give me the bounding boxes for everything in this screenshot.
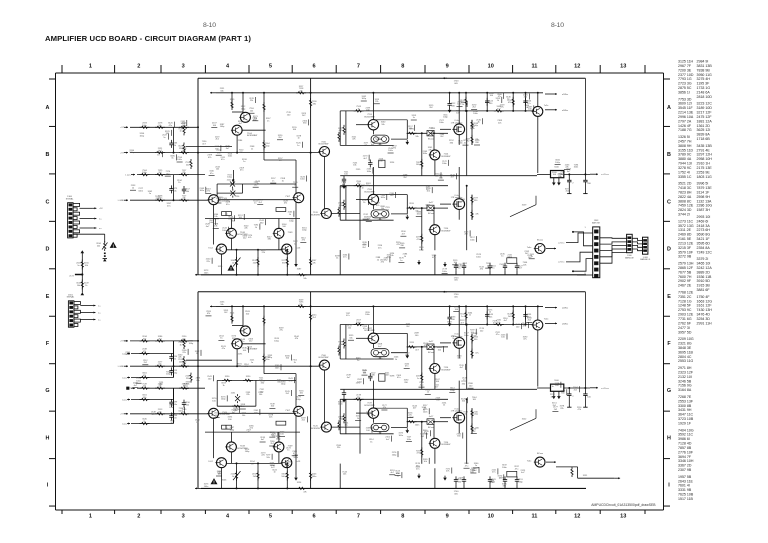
- svg-text:5100: 5100: [554, 380, 559, 382]
- svg-text:47k: 47k: [524, 97, 528, 99]
- svg-text:22k: 22k: [250, 428, 254, 430]
- svg-text:4n7: 4n7: [435, 387, 439, 389]
- svg-text:47u: 47u: [254, 118, 258, 120]
- svg-text:n.c.: n.c.: [98, 312, 102, 314]
- svg-text:100p: 100p: [289, 221, 294, 223]
- svg-text:7x2x: 7x2x: [544, 319, 550, 321]
- svg-text:2797 2A: 2797 2A: [678, 119, 692, 123]
- svg-text:22k: 22k: [560, 408, 564, 410]
- svg-text:2984 9I: 2984 9I: [697, 60, 709, 64]
- svg-text:330: 330: [561, 393, 565, 395]
- svg-text:1k: 1k: [443, 405, 446, 407]
- svg-text:1k: 1k: [357, 108, 360, 110]
- svg-text:47u: 47u: [344, 425, 348, 427]
- svg-text:BC858W: BC858W: [442, 369, 452, 371]
- svg-text:1n: 1n: [77, 265, 80, 267]
- svg-text:100: 100: [415, 335, 419, 337]
- svg-text:100p: 100p: [281, 384, 286, 386]
- svg-text:6: 6: [312, 513, 315, 519]
- svg-text:47k: 47k: [480, 269, 484, 271]
- svg-text:47k: 47k: [303, 491, 307, 493]
- svg-text:2k2: 2k2: [97, 246, 101, 248]
- svg-text:1k: 1k: [294, 362, 297, 364]
- svg-text:22k: 22k: [357, 397, 361, 399]
- svg-text:1k: 1k: [196, 353, 199, 355]
- svg-text:1k: 1k: [232, 476, 235, 478]
- svg-text:6: 6: [312, 63, 315, 69]
- svg-text:3246 5B: 3246 5B: [678, 379, 692, 383]
- svg-text:7768 12E: 7768 12E: [678, 291, 694, 295]
- svg-text:22k: 22k: [375, 101, 379, 103]
- svg-text:7268 7E: 7268 7E: [678, 395, 692, 399]
- svg-text:47u: 47u: [226, 204, 230, 206]
- svg-text:47u: 47u: [279, 330, 283, 332]
- svg-text:3154: 3154: [390, 162, 395, 164]
- svg-text:2k2: 2k2: [574, 389, 578, 391]
- svg-text:3367 2D: 3367 2D: [678, 464, 692, 468]
- svg-text:10k: 10k: [266, 457, 270, 459]
- svg-text:22k: 22k: [182, 172, 186, 174]
- svg-text:G: G: [45, 388, 49, 394]
- svg-text:2273 6H: 2273 6H: [697, 228, 711, 232]
- svg-text:100: 100: [282, 226, 286, 228]
- svg-text:1426 4F: 1426 4F: [678, 124, 692, 128]
- svg-text:3164 8A: 3164 8A: [678, 388, 692, 392]
- svg-text:7418 3C: 7418 3C: [678, 186, 692, 190]
- svg-text:3957 5D: 3957 5D: [678, 330, 692, 334]
- svg-text:L GND: L GND: [118, 366, 125, 368]
- svg-text:7156 9G: 7156 9G: [678, 384, 692, 388]
- svg-text:47u: 47u: [240, 170, 244, 172]
- svg-text:47u: 47u: [475, 353, 479, 355]
- svg-text:3881 6F: 3881 6F: [697, 288, 711, 292]
- svg-text:3465 10I: 3465 10I: [697, 262, 711, 266]
- svg-text:7x13: 7x13: [295, 248, 301, 250]
- svg-text:7857 8B: 7857 8B: [678, 446, 692, 450]
- svg-text:3880 4A: 3880 4A: [678, 157, 692, 161]
- svg-text:47k: 47k: [248, 237, 252, 239]
- svg-text:11: 11: [531, 513, 537, 519]
- svg-text:2k2: 2k2: [403, 177, 407, 179]
- svg-text:100p: 100p: [473, 414, 478, 416]
- svg-text:1: 1: [584, 227, 586, 229]
- svg-text:2199: 2199: [458, 477, 463, 479]
- svg-text:7879 13E: 7879 13E: [697, 186, 713, 190]
- svg-text:2k2: 2k2: [249, 341, 253, 343]
- svg-text:1n: 1n: [267, 120, 270, 122]
- svg-text:2k2: 2k2: [429, 107, 433, 109]
- svg-text:100: 100: [490, 95, 494, 97]
- svg-text:47k: 47k: [381, 262, 385, 264]
- svg-text:1n: 1n: [461, 316, 464, 318]
- svg-text:1k: 1k: [220, 338, 223, 340]
- svg-text:1n: 1n: [243, 161, 246, 163]
- svg-text:4n7: 4n7: [413, 408, 417, 410]
- svg-text:10: 10: [488, 513, 494, 519]
- svg-text:2: 2: [137, 63, 140, 69]
- svg-text:7128 1G: 7128 1G: [678, 299, 692, 303]
- svg-text:3159: 3159: [299, 300, 304, 302]
- svg-text:2148 6A: 2148 6A: [697, 90, 711, 94]
- svg-text:7944 13I: 7944 13I: [678, 162, 692, 166]
- svg-text:47u: 47u: [222, 348, 226, 350]
- svg-text:3169: 3169: [230, 99, 235, 101]
- svg-text:100n: 100n: [199, 190, 204, 192]
- svg-text:1536 11B: 1536 11B: [697, 275, 713, 279]
- svg-text:12: 12: [574, 63, 580, 69]
- svg-text:47k: 47k: [207, 313, 211, 315]
- svg-text:3572 13G: 3572 13G: [678, 224, 694, 228]
- svg-text:2k2: 2k2: [466, 141, 470, 143]
- svg-text:7677 5B: 7677 5B: [678, 270, 692, 274]
- svg-text:10k: 10k: [454, 262, 458, 264]
- svg-text:47u: 47u: [167, 205, 171, 207]
- svg-text:3331 9B: 3331 9B: [678, 488, 692, 492]
- svg-text:4n7: 4n7: [390, 472, 394, 474]
- svg-text:1k: 1k: [222, 385, 225, 387]
- svg-text:100: 100: [390, 195, 394, 197]
- svg-text:3579 10F: 3579 10F: [678, 250, 694, 254]
- svg-text:10k: 10k: [173, 190, 177, 192]
- svg-text:3950 11G: 3950 11G: [697, 73, 713, 77]
- svg-text:2967 7F: 2967 7F: [678, 64, 692, 68]
- svg-text:3297 12H: 3297 12H: [697, 153, 713, 157]
- svg-text:1k: 1k: [336, 258, 339, 260]
- svg-text:47k: 47k: [578, 409, 582, 411]
- svg-text:3154: 3154: [297, 482, 302, 484]
- svg-text:100p: 100p: [166, 374, 171, 376]
- svg-text:o2Wxx: o2Wxx: [562, 94, 568, 96]
- svg-text:3125 11H: 3125 11H: [678, 60, 694, 64]
- svg-text:330: 330: [312, 103, 316, 105]
- svg-text:100n: 100n: [204, 486, 209, 488]
- svg-text:1k: 1k: [196, 422, 199, 424]
- svg-text:8: 8: [401, 513, 404, 519]
- svg-text:3808 8C: 3808 8C: [678, 199, 692, 203]
- svg-text:1k: 1k: [178, 182, 181, 184]
- svg-text:7249 12C: 7249 12C: [697, 250, 713, 254]
- svg-text:3355 1C: 3355 1C: [678, 175, 692, 179]
- svg-text:100n: 100n: [476, 256, 481, 258]
- svg-text:1663 12G: 1663 12G: [697, 299, 713, 303]
- svg-text:2k2: 2k2: [362, 247, 366, 249]
- svg-text:3986 6I: 3986 6I: [678, 437, 690, 441]
- svg-text:47k: 47k: [207, 191, 211, 193]
- svg-text:2253 9E: 2253 9E: [697, 170, 711, 174]
- svg-text:2191: 2191: [238, 354, 243, 356]
- svg-text:47u: 47u: [500, 107, 504, 109]
- svg-text:1k: 1k: [497, 100, 500, 102]
- svg-text:3996 5I: 3996 5I: [697, 182, 709, 186]
- svg-text:4x17: 4x17: [429, 416, 434, 418]
- svg-text:1n: 1n: [492, 268, 495, 270]
- svg-text:330: 330: [474, 200, 478, 202]
- svg-text:100p: 100p: [518, 481, 523, 483]
- svg-text:1k: 1k: [232, 262, 235, 264]
- svg-text:C: C: [667, 199, 671, 205]
- svg-text:12: 12: [574, 513, 580, 519]
- svg-text:100p: 100p: [392, 454, 397, 456]
- svg-text:BC858W: BC858W: [442, 231, 452, 233]
- svg-text:1n: 1n: [298, 138, 301, 140]
- svg-text:7753 3D: 7753 3D: [678, 97, 692, 101]
- svg-text:7107: 7107: [285, 410, 291, 412]
- svg-text:7109: 7109: [287, 232, 293, 234]
- svg-text:4n7: 4n7: [226, 148, 230, 150]
- svg-text:100n: 100n: [357, 381, 362, 383]
- svg-text:3189 10D: 3189 10D: [697, 106, 713, 110]
- svg-text:3647 11C: 3647 11C: [678, 413, 694, 417]
- svg-text:100n: 100n: [312, 476, 317, 478]
- svg-text:4n7: 4n7: [460, 367, 464, 369]
- svg-text:100n: 100n: [473, 113, 478, 115]
- svg-text:2553 13F: 2553 13F: [678, 399, 694, 403]
- svg-text:4n7: 4n7: [464, 142, 468, 144]
- svg-text:2k2: 2k2: [472, 431, 476, 433]
- svg-text:H: H: [667, 435, 671, 441]
- svg-text:10k: 10k: [216, 169, 220, 171]
- svg-text:1k: 1k: [294, 184, 297, 186]
- svg-text:7459 12E: 7459 12E: [678, 204, 694, 208]
- svg-text:7x12: 7x12: [208, 248, 214, 250]
- svg-text:3: 3: [182, 63, 185, 69]
- svg-text:3379 2I: 3379 2I: [697, 257, 709, 261]
- svg-text:2k2: 2k2: [406, 326, 410, 328]
- svg-text:10k: 10k: [186, 191, 190, 193]
- svg-text:3215 3F: 3215 3F: [678, 246, 692, 250]
- svg-text:A: A: [46, 105, 50, 111]
- svg-text:100: 100: [457, 358, 461, 360]
- svg-text:1n: 1n: [362, 187, 365, 189]
- svg-text:1k: 1k: [458, 268, 461, 270]
- svg-text:2323 12F: 2323 12F: [678, 370, 694, 374]
- svg-text:2321 8G: 2321 8G: [678, 342, 692, 346]
- svg-text:100n: 100n: [423, 153, 428, 155]
- svg-text:47u: 47u: [515, 468, 519, 470]
- svg-text:10k: 10k: [303, 278, 307, 280]
- svg-text:2k2: 2k2: [216, 139, 220, 141]
- svg-text:2k2: 2k2: [528, 320, 532, 322]
- svg-text:2k2: 2k2: [473, 470, 477, 472]
- svg-text:3195: 3195: [409, 203, 414, 205]
- svg-text:330: 330: [450, 142, 454, 144]
- svg-text:7823 8H: 7823 8H: [678, 191, 692, 195]
- svg-text:1n: 1n: [413, 117, 416, 119]
- svg-text:7404 10G: 7404 10G: [678, 428, 694, 432]
- svg-text:100p: 100p: [227, 177, 232, 179]
- svg-text:1195 3F: 1195 3F: [697, 82, 711, 86]
- svg-text:3545 11F: 3545 11F: [678, 106, 694, 110]
- svg-text:330: 330: [261, 383, 265, 385]
- svg-text:3155 11D: 3155 11D: [678, 148, 694, 152]
- svg-text:330: 330: [489, 103, 493, 105]
- svg-text:10k: 10k: [214, 226, 218, 228]
- svg-text:1915 3B: 1915 3B: [697, 284, 711, 288]
- svg-text:7793 1G: 7793 1G: [678, 77, 692, 81]
- svg-text:3300 8B: 3300 8B: [678, 404, 692, 408]
- svg-text:10k: 10k: [77, 285, 81, 287]
- svg-text:100n: 100n: [142, 172, 147, 174]
- svg-text:Lout-: Lout-: [122, 398, 127, 401]
- svg-text:3122: 3122: [522, 418, 527, 420]
- svg-text:47u: 47u: [463, 265, 467, 267]
- svg-text:47k: 47k: [352, 139, 356, 141]
- svg-text:7731 6G: 7731 6G: [678, 317, 692, 321]
- svg-text:330: 330: [502, 486, 506, 488]
- svg-text:2132 10I: 2132 10I: [678, 375, 692, 379]
- svg-text:1n: 1n: [273, 472, 276, 474]
- svg-text:100n: 100n: [228, 156, 233, 158]
- svg-text:47k: 47k: [208, 157, 212, 159]
- svg-text:3592 11C: 3592 11C: [678, 433, 694, 437]
- svg-text:100p: 100p: [296, 399, 301, 401]
- svg-text:1k: 1k: [531, 256, 534, 258]
- svg-text:13: 13: [620, 63, 626, 69]
- svg-text:10k: 10k: [349, 337, 353, 339]
- svg-text:2k2: 2k2: [243, 238, 247, 240]
- svg-text:100n: 100n: [423, 411, 428, 413]
- svg-text:47u: 47u: [346, 315, 350, 317]
- svg-text:330: 330: [458, 481, 462, 483]
- svg-text:10k: 10k: [381, 124, 385, 126]
- svg-text:2k2: 2k2: [302, 115, 306, 117]
- svg-text:7600 7H: 7600 7H: [678, 275, 692, 279]
- svg-text:3187: 3187: [297, 268, 302, 270]
- svg-text:8: 8: [401, 63, 404, 69]
- svg-text:3190: 3190: [225, 376, 230, 378]
- svg-text:2: 2: [572, 396, 574, 398]
- svg-text:1k: 1k: [477, 122, 480, 124]
- svg-text:22k: 22k: [498, 122, 502, 124]
- svg-text:2822 4A: 2822 4A: [678, 195, 692, 199]
- svg-text:1k: 1k: [282, 180, 285, 182]
- svg-text:1n: 1n: [297, 145, 300, 147]
- svg-text:1n: 1n: [417, 378, 420, 380]
- svg-text:1587 3H: 1587 3H: [697, 208, 711, 212]
- svg-text:4n7: 4n7: [451, 177, 455, 179]
- svg-text:7838 9B: 7838 9B: [697, 68, 711, 72]
- svg-text:MAINSEC-S: MAINSEC-S: [640, 258, 651, 261]
- svg-text:22k: 22k: [299, 90, 303, 92]
- svg-text:2307 9B: 2307 9B: [678, 468, 692, 472]
- svg-text:3146: 3146: [222, 480, 227, 482]
- svg-text:1k: 1k: [255, 227, 258, 229]
- svg-text:1k: 1k: [179, 344, 182, 346]
- svg-text:3151: 3151: [583, 475, 588, 477]
- svg-text:100p: 100p: [555, 162, 560, 164]
- svg-text:330: 330: [371, 375, 375, 377]
- svg-text:3609 12I: 3609 12I: [678, 102, 692, 106]
- svg-text:100: 100: [379, 161, 383, 163]
- svg-text:AMPUCDCircuit_01A313500pdf_dra: AMPUCDCircuit_01A313500pdf_drawSEB: [591, 503, 656, 507]
- svg-text:3789 9C: 3789 9C: [678, 153, 692, 157]
- svg-text:BC858W: BC858W: [311, 428, 321, 430]
- svg-text:2865 12F: 2865 12F: [678, 266, 694, 270]
- svg-text:3889 2D: 3889 2D: [697, 270, 711, 274]
- svg-text:7200 3E: 7200 3E: [678, 68, 692, 72]
- svg-text:5: 5: [269, 63, 272, 69]
- svg-text:2k2: 2k2: [158, 338, 162, 340]
- svg-text:100: 100: [501, 337, 505, 339]
- svg-text:3272 9B: 3272 9B: [678, 255, 692, 259]
- svg-text:2k2: 2k2: [472, 107, 476, 109]
- svg-text:2418 3A: 2418 3A: [697, 224, 711, 228]
- svg-text:47u: 47u: [182, 338, 186, 340]
- svg-text:100p: 100p: [241, 108, 246, 110]
- svg-text:G: G: [667, 388, 671, 394]
- svg-text:3625 12I: 3625 12I: [697, 128, 711, 132]
- svg-text:C: C: [46, 199, 50, 205]
- svg-text:n.c.: n.c.: [98, 319, 102, 321]
- svg-text:100p: 100p: [450, 390, 455, 392]
- svg-text:3346 10H: 3346 10H: [678, 459, 694, 463]
- svg-text:2753 9C: 2753 9C: [678, 308, 692, 312]
- svg-text:005: 005: [454, 280, 458, 282]
- svg-text:47k: 47k: [386, 209, 390, 211]
- svg-text:4n7: 4n7: [378, 346, 382, 348]
- svg-text:H: H: [46, 435, 50, 441]
- svg-text:7: 7: [357, 63, 360, 69]
- svg-text:2k2: 2k2: [464, 234, 468, 236]
- svg-text:3278 9C: 3278 9C: [678, 166, 692, 170]
- svg-text:3223 12C: 3223 12C: [697, 102, 713, 106]
- svg-text:330: 330: [474, 339, 478, 341]
- svg-text:47k: 47k: [312, 262, 316, 264]
- svg-text:100: 100: [455, 309, 459, 311]
- svg-text:2k2: 2k2: [186, 405, 190, 407]
- svg-text:1k: 1k: [289, 214, 292, 216]
- svg-text:7x2x: 7x2x: [544, 105, 550, 107]
- svg-text:100n: 100n: [470, 239, 475, 241]
- svg-text:100: 100: [173, 417, 177, 419]
- svg-text:4x: 4x: [225, 427, 227, 429]
- svg-text:2156: 2156: [235, 196, 240, 198]
- svg-text:D: D: [46, 247, 50, 253]
- svg-text:100: 100: [439, 177, 443, 179]
- svg-text:outWxx: outWxx: [558, 241, 565, 244]
- svg-text:1n: 1n: [294, 243, 297, 245]
- svg-text:2467 2E: 2467 2E: [678, 284, 692, 288]
- svg-text:100p: 100p: [220, 126, 225, 128]
- svg-text:2475 12F: 2475 12F: [697, 115, 713, 119]
- svg-text:330: 330: [462, 383, 466, 385]
- svg-text:47k: 47k: [446, 471, 450, 473]
- svg-text:330: 330: [457, 436, 461, 438]
- svg-text:3198: 3198: [390, 376, 395, 378]
- svg-text:7x12: 7x12: [208, 461, 214, 463]
- svg-text:22k: 22k: [262, 252, 266, 254]
- svg-text:330: 330: [436, 400, 440, 402]
- svg-text:2209 10G: 2209 10G: [678, 337, 694, 341]
- svg-text:47k: 47k: [182, 198, 186, 200]
- svg-text:1k: 1k: [143, 421, 146, 423]
- svg-text:3113: 3113: [409, 342, 414, 344]
- svg-text:47k: 47k: [284, 203, 288, 205]
- svg-text:330: 330: [475, 142, 479, 144]
- svg-text:3190: 3190: [246, 376, 251, 378]
- svg-text:3595 6D: 3595 6D: [697, 242, 711, 246]
- svg-text:2643 11E: 2643 11E: [678, 479, 694, 483]
- svg-text:330: 330: [303, 123, 307, 125]
- svg-text:4n7: 4n7: [134, 385, 138, 387]
- svg-text:2902 9F: 2902 9F: [678, 279, 692, 283]
- svg-text:2598 9H: 2598 9H: [697, 195, 711, 199]
- svg-text:47u: 47u: [397, 377, 401, 379]
- svg-text:3744 2I: 3744 2I: [678, 213, 690, 217]
- svg-text:100n: 100n: [142, 125, 147, 127]
- svg-text:3275 4H: 3275 4H: [697, 77, 711, 81]
- svg-text:n.c.: n.c.: [99, 218, 103, 220]
